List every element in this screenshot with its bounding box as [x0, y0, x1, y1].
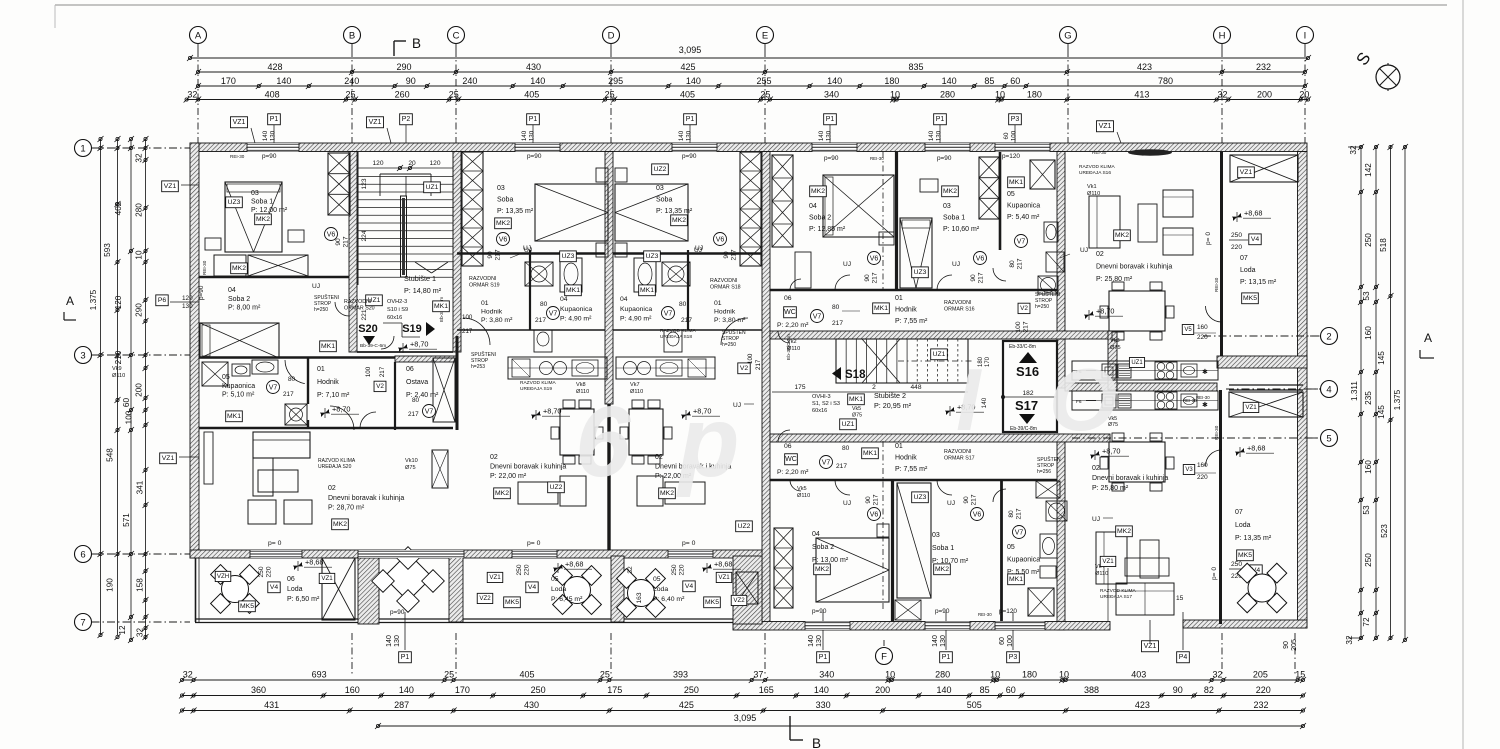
- svg-text:Soba 2: Soba 2: [812, 544, 834, 551]
- svg-text:02: 02: [1096, 251, 1104, 258]
- svg-text:523: 523: [1380, 524, 1389, 538]
- label V2 mid: [738, 363, 750, 374]
- label MK2 UR2: [942, 186, 959, 197]
- V5 door right: [1182, 325, 1193, 335]
- svg-text:130: 130: [816, 635, 823, 647]
- loggia table apt2: [564, 577, 591, 604]
- svg-text:140: 140: [928, 130, 935, 141]
- svg-text:E: E: [762, 30, 768, 41]
- svg-text:UREĐAJA S20: UREĐAJA S20: [318, 464, 352, 470]
- svg-text:217: 217: [731, 249, 738, 260]
- dining table LR: [1109, 442, 1165, 482]
- svg-text:90: 90: [487, 251, 494, 259]
- svg-text:Hodnik: Hodnik: [481, 309, 503, 316]
- svg-text:+8,68: +8,68: [305, 558, 323, 567]
- svg-text:P: 5,40 m²: P: 5,40 m²: [1007, 214, 1040, 221]
- svg-text:MK2: MK2: [811, 188, 825, 195]
- svg-text:MK2: MK2: [232, 265, 246, 272]
- svg-text:P2: P2: [402, 116, 411, 123]
- svg-text:P1: P1: [529, 116, 538, 123]
- svg-text:220: 220: [266, 566, 273, 577]
- V2 box hodnik: [374, 381, 386, 391]
- svg-text:80: 80: [679, 301, 687, 308]
- svg-text:32: 32: [1349, 145, 1358, 155]
- svg-text:140: 140: [932, 635, 939, 647]
- svg-text:05: 05: [1007, 544, 1015, 551]
- svg-text:693: 693: [312, 670, 327, 680]
- svg-text:VZ1: VZ1: [1102, 558, 1114, 565]
- svg-text:80: 80: [412, 397, 420, 404]
- svg-text:V5: V5: [1184, 327, 1192, 333]
- svg-text:+8,68: +8,68: [714, 560, 732, 569]
- svg-text:140: 140: [808, 635, 815, 647]
- svg-text:UZ3: UZ3: [914, 269, 927, 276]
- svg-text:Ø75: Ø75: [852, 412, 862, 418]
- label P6 box: [156, 295, 168, 306]
- svg-text:90: 90: [406, 76, 416, 86]
- svg-text:P: 12,00 m²: P: 12,00 m²: [251, 207, 288, 214]
- loggia right column bottom wall: [1183, 620, 1307, 628]
- svg-text:P: 4,90 m²: P: 4,90 m²: [560, 316, 592, 323]
- label MK1 box: [226, 411, 243, 422]
- grid bubble F bottom: [876, 648, 893, 665]
- label MK2 LR living: [1116, 526, 1133, 537]
- svg-text:WC: WC: [785, 456, 797, 463]
- label MK2 box 3: [332, 519, 349, 530]
- apt2 shaft ladder: [462, 152, 483, 266]
- svg-text:217: 217: [872, 272, 879, 283]
- svg-text:ORMAR S17: ORMAR S17: [944, 455, 975, 461]
- svg-text:10: 10: [135, 250, 144, 260]
- svg-text:2: 2: [872, 384, 876, 391]
- svg-text:+8,70: +8,70: [1096, 307, 1114, 316]
- level +8.70 apt2: [531, 410, 541, 420]
- svg-text:280: 280: [940, 89, 955, 99]
- ostava walls: [394, 362, 396, 430]
- svg-text:P: 2,40 m²: P: 2,40 m²: [406, 392, 439, 399]
- label MK2 apt3: [671, 215, 688, 226]
- label MK1 UR: [1008, 177, 1025, 188]
- svg-text:MK1: MK1: [874, 305, 888, 312]
- door arc left hall: [330, 406, 354, 430]
- svg-text:P: 2,20 m²: P: 2,20 m²: [777, 469, 809, 476]
- svg-text:5: 5: [1326, 433, 1331, 444]
- svg-text:130: 130: [394, 635, 401, 647]
- svg-text:571: 571: [122, 513, 131, 527]
- svg-text:220: 220: [1197, 474, 1208, 481]
- svg-text:Dnevni boravak i kuhinja: Dnevni boravak i kuhinja: [490, 463, 566, 470]
- label UZ1 stair2b: [931, 349, 948, 360]
- svg-text:518: 518: [1379, 238, 1388, 252]
- wall G upper: [1057, 152, 1065, 389]
- label VZ1 loggia2: [487, 572, 503, 582]
- label MK5 LR: [1237, 550, 1254, 561]
- svg-text:P: 13,35 m²: P: 13,35 m²: [1235, 535, 1272, 542]
- shaft loggia left: [322, 558, 355, 620]
- svg-text:UZ1: UZ1: [933, 351, 946, 358]
- svg-text:P4: P4: [1179, 654, 1188, 661]
- svg-text:07: 07: [1240, 255, 1248, 262]
- loggia parapet below divider: [1229, 384, 1303, 386]
- svg-text:REI-30: REI-30: [1214, 277, 1219, 292]
- vk10 shaft: [432, 450, 448, 488]
- outer wall right: [1298, 152, 1308, 629]
- svg-text:p= 0: p= 0: [527, 540, 541, 547]
- svg-text:UJ: UJ: [947, 500, 955, 507]
- svg-text:MK2: MK2: [333, 521, 347, 528]
- bed Soba1 left apt: [225, 182, 282, 252]
- svg-text:1: 1: [80, 143, 85, 154]
- svg-text:RAZVODNI: RAZVODNI: [944, 300, 971, 306]
- svg-text:280: 280: [935, 670, 950, 680]
- svg-text:p=90: p=90: [937, 155, 952, 162]
- svg-text:405: 405: [519, 670, 534, 680]
- kitchen divider wall: [1065, 383, 1217, 391]
- svg-text:200: 200: [875, 685, 890, 695]
- svg-text:V2: V2: [376, 383, 384, 390]
- svg-text:140: 140: [686, 76, 701, 86]
- label MK1 LR: [1008, 574, 1025, 585]
- loggia table left: [222, 576, 249, 603]
- label MK1 apt2: [565, 285, 582, 296]
- door arc left soba2: [335, 302, 349, 316]
- svg-text:05: 05: [1007, 191, 1015, 198]
- svg-text:h=250: h=250: [314, 307, 328, 313]
- svg-text:341: 341: [136, 480, 145, 494]
- svg-text:7: 7: [80, 617, 85, 628]
- staircase 2 Stubiste 2: [836, 339, 968, 383]
- svg-text:p= 0: p= 0: [1211, 567, 1218, 580]
- svg-text:6: 6: [80, 549, 85, 560]
- shaft column E-left: [740, 152, 761, 266]
- svg-text:01: 01: [317, 366, 325, 373]
- svg-text:P: 13,15 m²: P: 13,15 m²: [1240, 279, 1277, 286]
- svg-text:VZ1: VZ1: [233, 119, 246, 126]
- svg-text:V7: V7: [269, 384, 278, 391]
- svg-text:835: 835: [908, 62, 923, 72]
- right dimension ticks: [1359, 145, 1362, 148]
- svg-text:RAZVODNI: RAZVODNI: [344, 299, 371, 305]
- svg-text:430: 430: [526, 62, 541, 72]
- svg-text:✱: ✱: [1202, 368, 1208, 376]
- svg-text:25: 25: [605, 89, 615, 99]
- svg-text:60: 60: [1010, 76, 1020, 86]
- svg-text:MK2: MK2: [672, 217, 686, 224]
- svg-text:15: 15: [1295, 670, 1305, 680]
- S16 marker: [1019, 352, 1037, 363]
- partition right apt upper: [895, 152, 898, 291]
- level +8.70 stair1: [398, 343, 408, 353]
- bottom dimension row 360/160/140...: [182, 695, 1303, 697]
- svg-text:VZ1: VZ1: [321, 575, 333, 582]
- shaft column G-left: [979, 157, 999, 219]
- svg-text:217: 217: [495, 249, 502, 260]
- svg-text:P: 13,35 m²: P: 13,35 m²: [497, 208, 534, 215]
- svg-text:Hodnik: Hodnik: [895, 307, 917, 314]
- label VZ1 left wall2: [160, 453, 177, 464]
- wall C lower thin: [456, 336, 459, 430]
- svg-text:02: 02: [328, 485, 336, 492]
- svg-text:217: 217: [1016, 508, 1023, 519]
- V6 circle apt2: [497, 233, 510, 246]
- svg-text:UZ1: UZ1: [426, 184, 439, 191]
- svg-text:290: 290: [135, 303, 144, 317]
- svg-text:Dnevni boravak i kuhinja: Dnevni boravak i kuhinja: [1096, 264, 1172, 271]
- svg-text:Dnevni boravak i kuhinja: Dnevni boravak i kuhinja: [328, 495, 404, 502]
- svg-text:RAZVOD KLIMA: RAZVOD KLIMA: [520, 380, 557, 386]
- svg-text:10: 10: [990, 670, 1000, 680]
- svg-text:255: 255: [757, 76, 772, 86]
- svg-text:217: 217: [462, 328, 473, 335]
- svg-text:S10 i S9: S10 i S9: [387, 307, 408, 313]
- bed Soba2 lower right: [816, 538, 889, 602]
- svg-text:P: 5,10 m²: P: 5,10 m²: [222, 392, 255, 399]
- svg-text:100: 100: [1015, 321, 1022, 332]
- svg-text:1.375: 1.375: [89, 289, 98, 310]
- svg-text:430: 430: [524, 700, 539, 710]
- svg-text:Soba 1: Soba 1: [251, 199, 273, 206]
- svg-text:MK2: MK2: [496, 220, 510, 227]
- svg-text:G: G: [1064, 30, 1071, 41]
- svg-text:RAZVOD KLIMA: RAZVOD KLIMA: [1079, 164, 1116, 170]
- svg-text:90: 90: [1283, 641, 1290, 649]
- svg-text:210: 210: [114, 350, 123, 364]
- V6 circles LR: [868, 508, 881, 521]
- svg-text:287: 287: [394, 700, 409, 710]
- svg-text:MK1: MK1: [849, 396, 863, 403]
- V7 corridor UR: [811, 310, 824, 323]
- svg-text:Vk10: Vk10: [405, 458, 418, 464]
- svg-text:448: 448: [910, 384, 921, 391]
- svg-text:80: 80: [540, 301, 548, 308]
- svg-text:80: 80: [842, 445, 850, 452]
- svg-text:+8,70: +8,70: [543, 407, 561, 416]
- svg-text:180: 180: [1027, 89, 1042, 99]
- svg-text:VZ1: VZ1: [1245, 404, 1257, 411]
- svg-text:P: 6,50 m²: P: 6,50 m²: [287, 596, 320, 603]
- label MK2 UR: [810, 186, 827, 197]
- svg-text:RAZVODNI: RAZVODNI: [944, 449, 971, 455]
- svg-text:04: 04: [812, 531, 820, 538]
- svg-text:V4: V4: [528, 584, 537, 591]
- label V4 box: [268, 582, 280, 593]
- svg-text:REI-30: REI-30: [1183, 398, 1197, 403]
- svg-text:80: 80: [1009, 260, 1016, 268]
- svg-text:217: 217: [379, 366, 386, 377]
- svg-text:160: 160: [345, 685, 360, 695]
- svg-text:15: 15: [1176, 595, 1184, 602]
- loggia band bottom edge: [195, 618, 733, 620]
- stair hall pier right: [1108, 331, 1117, 390]
- svg-text:MK2: MK2: [1115, 232, 1129, 239]
- arc UR living door: [1206, 306, 1222, 322]
- arc LR living door: [1206, 450, 1222, 466]
- label V4 UR: [1249, 234, 1261, 245]
- svg-text:P1: P1: [270, 116, 279, 123]
- svg-text:S1, S2 i S3: S1, S2 i S3: [812, 401, 840, 407]
- svg-text:220: 220: [1256, 685, 1271, 695]
- shaft column E-right: [772, 155, 793, 247]
- svg-text:217: 217: [755, 359, 762, 370]
- bottom P-labels: [399, 652, 412, 663]
- svg-text:130: 130: [686, 130, 693, 141]
- V7 circle apt2: [547, 307, 560, 320]
- bed Soba1 lower right: [897, 483, 931, 598]
- svg-text:Ostava: Ostava: [406, 379, 428, 386]
- svg-text:V4: V4: [685, 583, 694, 590]
- door arc LR soba1: [937, 480, 952, 495]
- svg-text:160: 160: [1364, 460, 1373, 474]
- svg-text:UREĐAJA S16: UREĐAJA S16: [1079, 170, 1111, 176]
- svg-text:85: 85: [980, 685, 990, 695]
- svg-text:P: 28,70 m²: P: 28,70 m²: [328, 505, 365, 512]
- svg-text:250: 250: [516, 564, 523, 575]
- svg-text:431: 431: [264, 700, 279, 710]
- svg-text:UJ: UJ: [694, 247, 702, 254]
- label MK1 apt3: [639, 285, 656, 296]
- svg-text:MK2: MK2: [943, 188, 957, 195]
- svg-text:250: 250: [1231, 232, 1242, 239]
- svg-text:217: 217: [873, 494, 880, 505]
- stair2 bottom wall: [770, 434, 1110, 442]
- S18 marker: [832, 367, 841, 380]
- V7 circle apt3: [662, 307, 675, 320]
- svg-text:10: 10: [995, 89, 1005, 99]
- svg-text:06: 06: [784, 295, 792, 302]
- svg-text:A: A: [1424, 331, 1432, 345]
- loggia pier D: [611, 556, 624, 622]
- svg-text:165: 165: [759, 685, 774, 695]
- svg-text:VZH: VZH: [217, 573, 229, 580]
- svg-text:p= 0: p= 0: [1205, 232, 1212, 245]
- svg-text:S20: S20: [358, 323, 378, 335]
- door arc UR soba1: [937, 275, 952, 290]
- bed Soba2 left apt: [200, 323, 279, 358]
- svg-text:Kupaonica: Kupaonica: [560, 306, 592, 313]
- svg-text:VZ2: VZ2: [479, 595, 491, 602]
- svg-text:295: 295: [608, 76, 623, 86]
- svg-text:205: 205: [1291, 639, 1298, 651]
- svg-text:32: 32: [183, 670, 193, 680]
- svg-text:p=90: p=90: [198, 285, 205, 300]
- svg-text:V7: V7: [813, 313, 822, 320]
- door arc UR soba2: [835, 275, 850, 290]
- svg-text:163: 163: [636, 592, 643, 603]
- svg-text:p=90: p=90: [527, 153, 542, 160]
- svg-text:100: 100: [747, 353, 754, 364]
- svg-text:158: 158: [136, 578, 145, 592]
- upper corridor wall bottom: [770, 331, 1110, 339]
- staircase 1 Stubiste 1: [358, 176, 453, 178]
- svg-text:+8,68: +8,68: [1247, 444, 1265, 453]
- dining table UR: [1109, 291, 1165, 331]
- label UZ1 stair2a: [840, 419, 857, 430]
- svg-text:V2: V2: [1020, 305, 1028, 312]
- svg-text:UZ3: UZ3: [562, 253, 575, 260]
- svg-text:Kupaonica: Kupaonica: [1007, 203, 1040, 210]
- svg-text:120: 120: [114, 295, 123, 309]
- svg-text:MK1: MK1: [863, 450, 877, 457]
- svg-text:32: 32: [187, 89, 197, 99]
- svg-text:20: 20: [1299, 89, 1309, 99]
- bath upper right fixtures: [1030, 160, 1055, 189]
- bath lower right fixtures: [1028, 588, 1054, 616]
- svg-text:360: 360: [251, 685, 266, 695]
- stair2 dim 175/2/448: [772, 391, 968, 393]
- svg-text:1.311: 1.311: [1350, 381, 1359, 401]
- dimension row 428/290/430/425/835/423/232: [198, 71, 1305, 73]
- living/loggia wall upper right: [1220, 152, 1223, 357]
- svg-text:05: 05: [551, 576, 559, 583]
- svg-text:WC: WC: [784, 309, 796, 316]
- svg-text:REI-30: REI-30: [202, 260, 207, 275]
- outer wall top: [190, 143, 1307, 152]
- label UZ2 apt3: [652, 164, 669, 175]
- V7 circle left bath: [267, 381, 280, 394]
- svg-text:170: 170: [455, 685, 470, 695]
- svg-text:ORMAR S18: ORMAR S18: [710, 284, 741, 290]
- svg-text:100: 100: [125, 410, 134, 424]
- svg-text:V7: V7: [1015, 529, 1024, 536]
- svg-text:REI-30: REI-30: [978, 612, 992, 617]
- left dimension ticks: [144, 137, 147, 140]
- svg-text:240: 240: [462, 76, 477, 86]
- label MK5 box: [239, 601, 256, 612]
- label VZ2 box: [215, 571, 231, 581]
- svg-text:MK5: MK5: [1243, 295, 1257, 302]
- svg-text:I O: I O: [956, 350, 1139, 449]
- partition lower apt 2: [1000, 480, 1003, 622]
- svg-text:P1: P1: [942, 654, 951, 661]
- left apt bath top wall: [199, 356, 449, 358]
- svg-text:P1: P1: [819, 654, 828, 661]
- svg-text:P: 12,85 m²: P: 12,85 m²: [809, 226, 846, 233]
- svg-text:32: 32: [627, 566, 634, 574]
- svg-text:V4: V4: [1251, 236, 1260, 243]
- grid bubbles 2/4/5 right: [1321, 328, 1338, 345]
- label MK2 UR living: [1114, 230, 1131, 241]
- apt3 bath wall: [687, 250, 689, 330]
- svg-text:MK1: MK1: [640, 287, 654, 294]
- svg-text:80: 80: [832, 304, 840, 311]
- svg-text:p=90: p=90: [262, 153, 277, 160]
- svg-text:UJ: UJ: [1080, 247, 1088, 254]
- svg-text:2: 2: [1326, 331, 1331, 342]
- level +8.68 apt2 loggia: [553, 563, 563, 573]
- svg-text:P: 3,80 m²: P: 3,80 m²: [714, 317, 746, 324]
- svg-text:OVHI-3: OVHI-3: [812, 394, 831, 400]
- svg-text:p=90: p=90: [682, 153, 697, 160]
- svg-text:P1: P1: [686, 116, 695, 123]
- svg-text:P: 8,00 m²: P: 8,00 m²: [228, 305, 261, 312]
- corner shower bath: [285, 404, 307, 425]
- svg-text:60: 60: [1003, 132, 1010, 139]
- svg-text:p=90: p=90: [935, 608, 950, 615]
- MK1 stair2: [848, 394, 865, 405]
- loggia top-right inner edge: [1221, 152, 1223, 349]
- svg-text:Stubište 2: Stubište 2: [874, 391, 906, 400]
- svg-text:MK5: MK5: [240, 603, 254, 610]
- svg-text:B: B: [812, 736, 821, 749]
- svg-text:I: I: [1304, 30, 1307, 41]
- svg-text:A: A: [195, 30, 202, 41]
- svg-text:250: 250: [258, 566, 265, 577]
- label MK2 apt2: [495, 218, 512, 229]
- svg-text:408: 408: [265, 89, 280, 99]
- level +8.70 UR: [1084, 310, 1094, 320]
- level +8.70 hodnik: [320, 408, 330, 418]
- svg-text:120: 120: [372, 160, 383, 167]
